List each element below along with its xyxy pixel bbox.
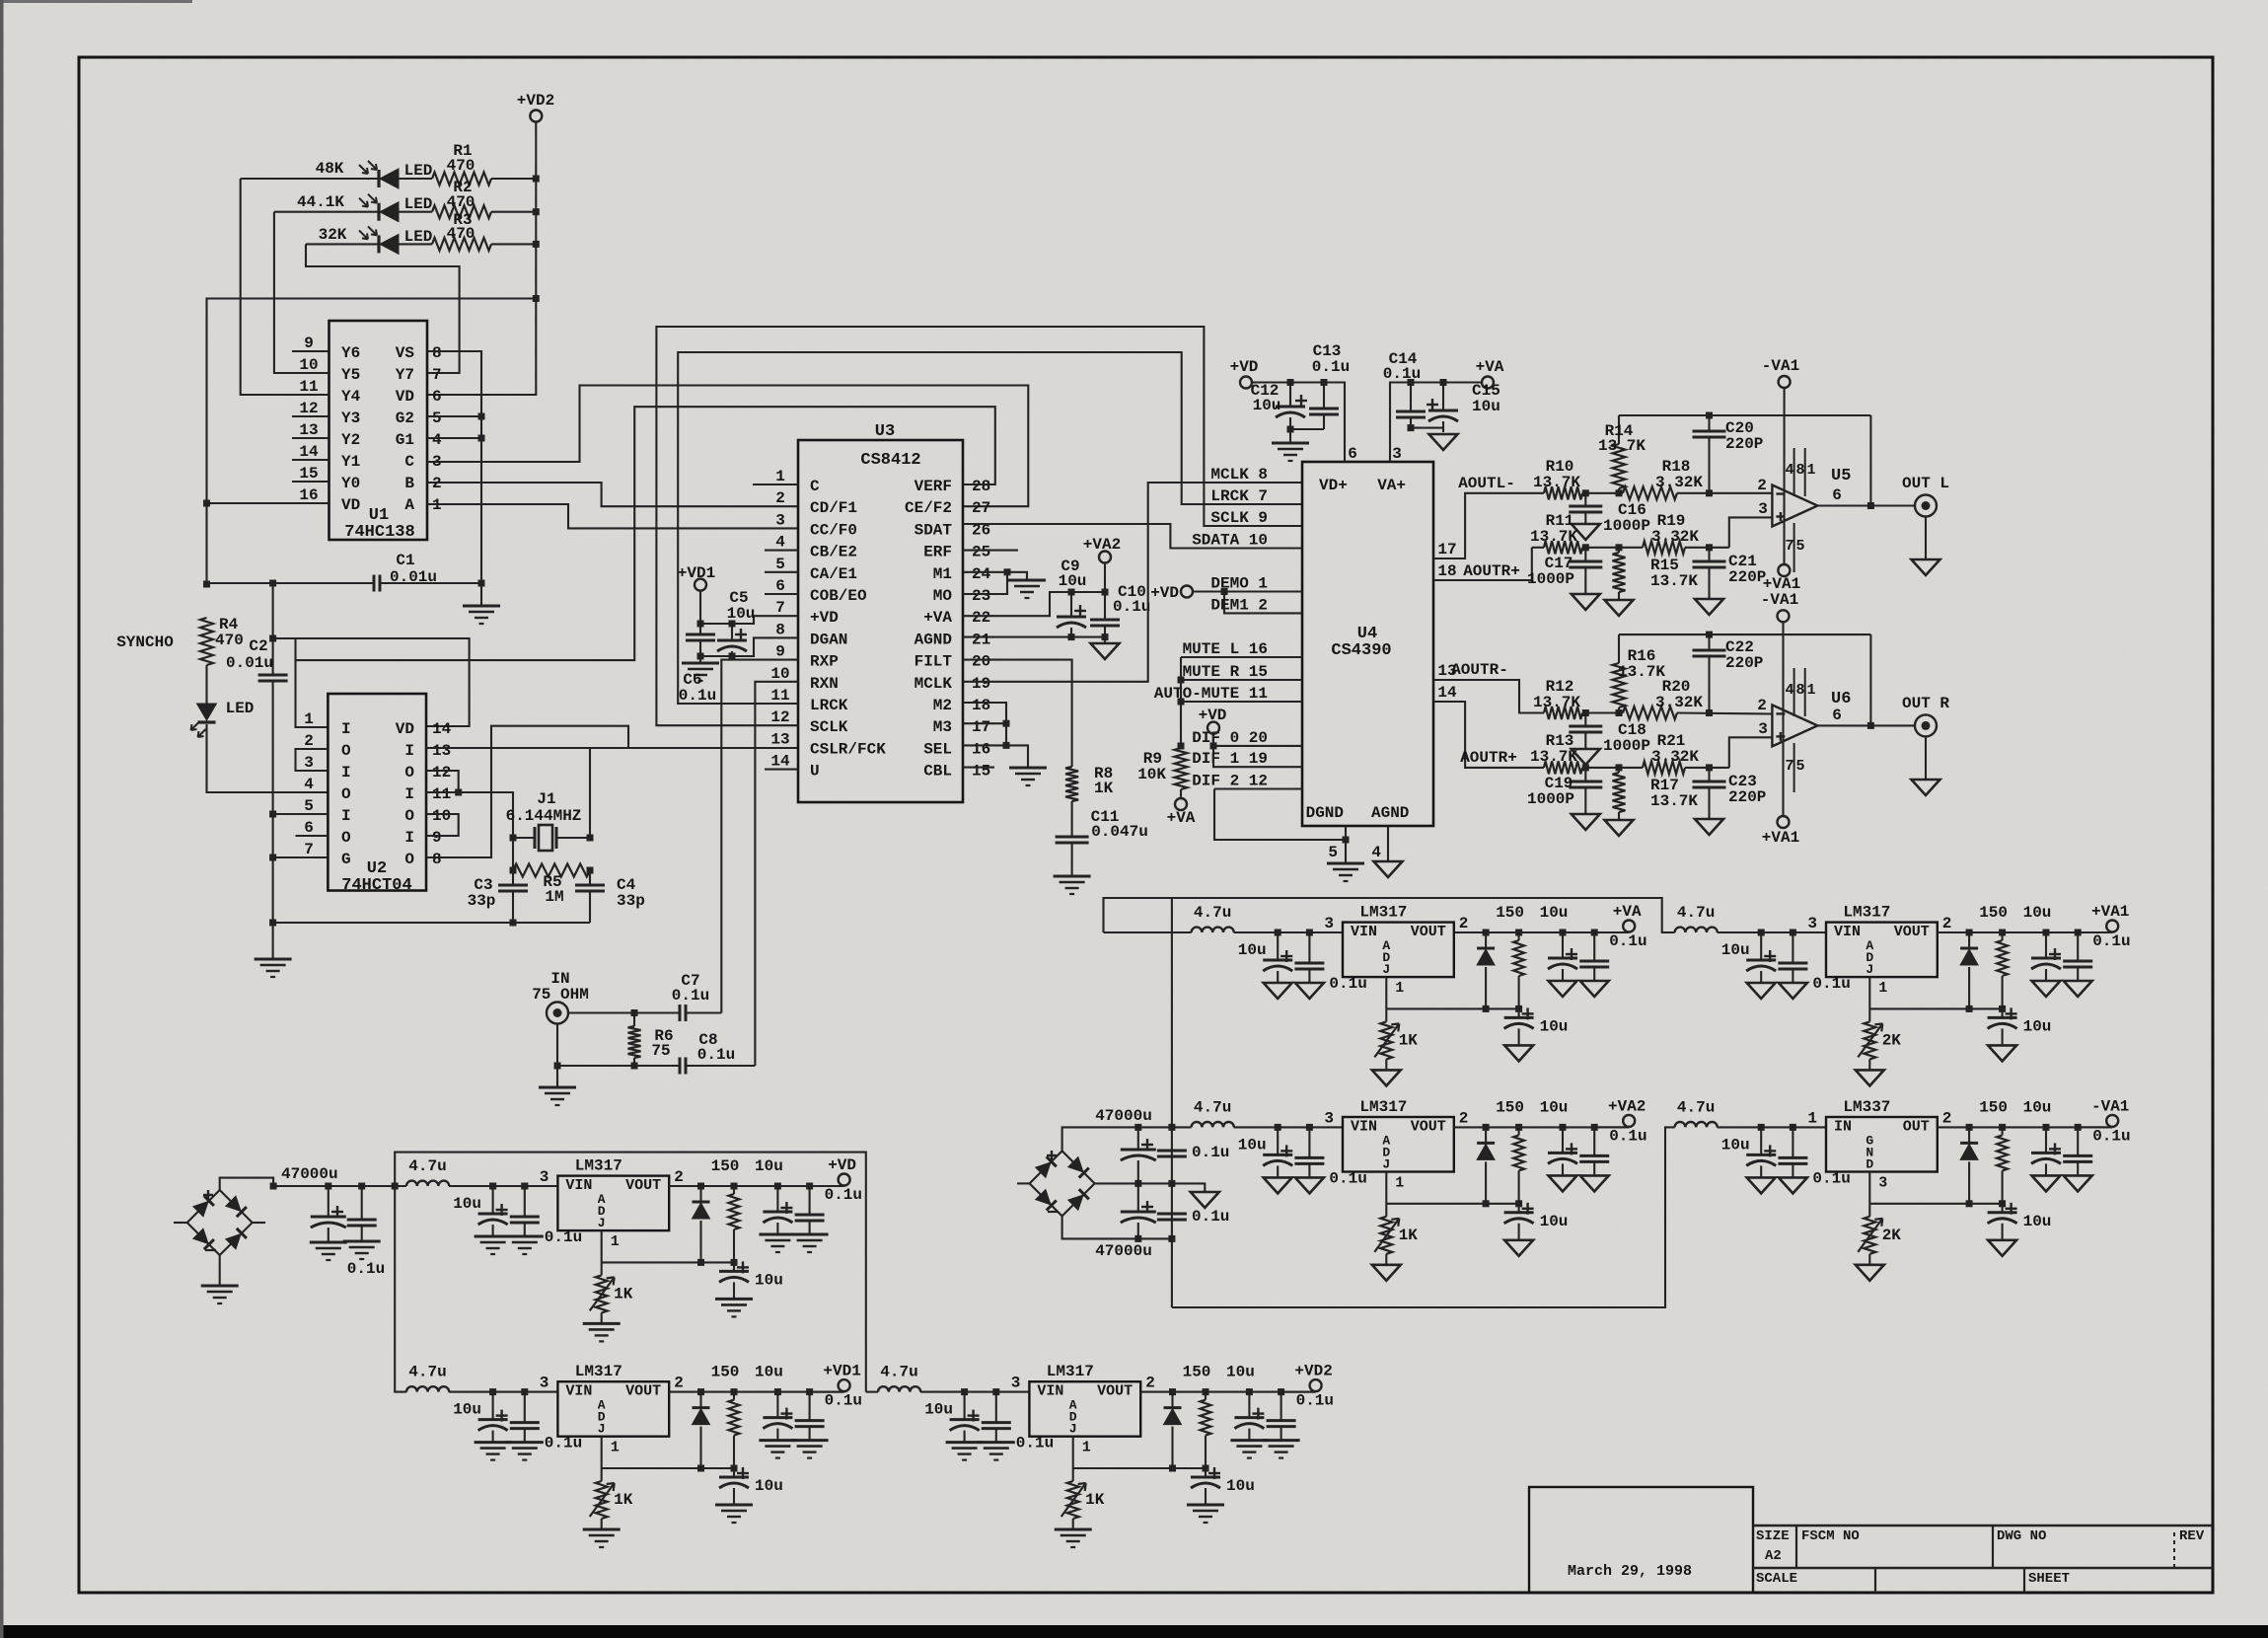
capacitor 0.1u output of +VD1 block	[809, 1392, 811, 1421]
resistor R6 75	[633, 1013, 635, 1027]
capacitor C5 10u	[731, 624, 733, 640]
power terminal +VD at DEMO	[1181, 586, 1193, 598]
capacitor 47000u left PSU	[328, 1186, 329, 1217]
power terminal -VA1 for U5	[1779, 376, 1791, 388]
svg-text:10: 10	[299, 356, 318, 374]
protection diode of -VA1 block	[1968, 1127, 1970, 1143]
svg-text:0.1u: 0.1u	[697, 1046, 735, 1064]
wire U3 RXN pin10 to C8	[755, 682, 798, 1066]
svg-text:I: I	[404, 829, 414, 847]
capacitor C19 1000P	[1584, 768, 1586, 782]
svg-text:10u: 10u	[755, 1271, 783, 1289]
svg-text:Y0: Y0	[341, 475, 360, 492]
resistor R11 13.7K	[1544, 541, 1582, 554]
resistor R16 13.7K	[1618, 634, 1620, 663]
svg-text:AOUTR-: AOUTR-	[1451, 661, 1508, 679]
U1 pin 14 Y1 stub	[292, 459, 329, 461]
capacitor 0.1u output of -VA1 block	[2077, 1127, 2079, 1155]
regulator LM317 of +VA block	[1343, 923, 1454, 978]
svg-text:B: B	[404, 475, 414, 492]
U5 output to OUT L	[1817, 504, 1915, 506]
svg-text:150: 150	[1183, 1364, 1211, 1381]
output rail of +VA2 block	[1454, 1126, 1629, 1128]
wire U3 MCLK pin19 to U4 MCLK pin8	[963, 483, 1302, 682]
wire +VA rail to U4 VA+ pin3	[1390, 383, 1482, 463]
capacitor C16 1000P	[1584, 493, 1586, 506]
power terminal +VD2 of +VD2 block	[1281, 1391, 1316, 1393]
ground below C15	[1429, 434, 1458, 450]
capacitor C12 10u	[1289, 383, 1291, 408]
capacitor 10u output of +VD block	[776, 1186, 778, 1212]
wire U1 VS/G2/G1 to ground	[427, 351, 481, 606]
svg-text:24: 24	[972, 565, 991, 583]
ground below input 10u of +VA block	[1264, 983, 1292, 999]
ADJ pin wire of +VD block	[601, 1230, 603, 1262]
svg-text:VIN: VIN	[1834, 924, 1861, 940]
svg-text:13.7K: 13.7K	[1533, 694, 1580, 711]
svg-text:DGND: DGND	[1306, 804, 1344, 822]
ground at U3 SEL	[1009, 767, 1047, 770]
wire 32K to U1 Y7	[306, 244, 460, 373]
svg-text:10u: 10u	[755, 1157, 783, 1175]
svg-text:150: 150	[1496, 904, 1524, 922]
power terminal +VA2	[1099, 552, 1111, 563]
svg-text:O: O	[404, 807, 414, 825]
svg-text:25: 25	[972, 544, 990, 561]
ground below output 10u of +VD1 block	[759, 1439, 796, 1442]
svg-text:-VA1: -VA1	[1761, 591, 1798, 609]
svg-text:17: 17	[972, 718, 990, 736]
U1 pin 11 Y4 stub	[292, 394, 329, 396]
svg-text:27: 27	[972, 499, 990, 517]
raw feed wire into +VA block	[1104, 931, 1192, 933]
wire input rail of +VA block	[1234, 931, 1343, 933]
svg-text:3: 3	[540, 1168, 549, 1186]
svg-text:4: 4	[304, 776, 314, 793]
svg-text:13.7K: 13.7K	[1530, 528, 1577, 546]
svg-text:VOUT: VOUT	[1894, 924, 1930, 940]
U3 M1/M0 pins to ground	[963, 572, 1027, 580]
ground below trimmer of +VA1 block	[1856, 1070, 1884, 1085]
svg-text:220P: 220P	[1725, 435, 1763, 453]
ground at BR2 midpoint	[1191, 1192, 1219, 1208]
svg-text:SDAT: SDAT	[915, 521, 953, 539]
capacitor 10u at ADJ of -VA1 block	[2002, 1204, 2004, 1213]
wire R4/LED to U2 pin4	[207, 724, 329, 792]
op-amp U5	[1772, 485, 1817, 527]
svg-text:470: 470	[447, 157, 476, 175]
svg-text:OUT: OUT	[1903, 1118, 1930, 1135]
output rail of +VA block	[1454, 931, 1629, 933]
svg-text:OUT L: OUT L	[1902, 475, 1949, 492]
ground below output 10u of +VA block	[1549, 981, 1577, 997]
svg-text:+VA1: +VA1	[1762, 829, 1799, 847]
ground below input 10u of +VA1 block	[1747, 983, 1776, 999]
svg-text:14: 14	[770, 753, 790, 771]
svg-text:CE/F2: CE/F2	[905, 499, 952, 517]
svg-text:OUT R: OUT R	[1902, 695, 1949, 712]
svg-text:VOUT: VOUT	[1411, 1118, 1446, 1135]
svg-text:1: 1	[1807, 1109, 1817, 1127]
inductor 4.7u of +VD block	[406, 1181, 449, 1186]
ground below U4 AGND	[1374, 861, 1403, 877]
capacitor 0.1u input of +VD1 block	[524, 1392, 526, 1423]
U3 M2/M3/SEL tie to ground	[963, 703, 1028, 768]
svg-text:5: 5	[1795, 758, 1804, 775]
power terminal +VA1 below U5	[1778, 564, 1790, 576]
svg-text:CBL: CBL	[923, 763, 952, 781]
wire cap bottoms to U3 DGAN pin8	[700, 637, 798, 656]
svg-text:LM317: LM317	[1843, 904, 1890, 922]
resistor R17 13.7K	[1618, 768, 1620, 773]
resistor R19 3.32K	[1643, 541, 1685, 554]
svg-text:16: 16	[299, 486, 318, 504]
ground below trimmer of +VD block	[583, 1322, 621, 1325]
power terminal +VA2 of +VA2 block	[1594, 1126, 1629, 1128]
svg-text:0.1u: 0.1u	[1609, 1127, 1646, 1145]
wire 44.1K to U1 Y5	[274, 212, 329, 373]
ground below output 0.1u of +VD2 block	[1263, 1439, 1300, 1442]
svg-text:3.32K: 3.32K	[1651, 528, 1699, 546]
output rail of +VD2 block	[1140, 1391, 1315, 1393]
resistor R14 13.7K	[1618, 415, 1620, 444]
svg-text:10u: 10u	[1226, 1364, 1255, 1381]
wire U3 FILT pin20 to R8	[963, 660, 1072, 767]
ADJ pin wire of +VA1 block	[1868, 977, 1870, 1008]
svg-text:470: 470	[447, 193, 476, 211]
ground below BR1	[201, 1285, 239, 1288]
capacitor C21 220P	[1708, 548, 1710, 561]
svg-text:SEL: SEL	[923, 740, 952, 758]
capacitor 10u output of +VA1 block	[2045, 932, 2047, 958]
svg-text:5: 5	[1328, 844, 1338, 861]
svg-text:13.7K: 13.7K	[1618, 663, 1665, 681]
U1 pin 16 VD stub	[292, 502, 329, 504]
wire BR1 plus output to raw node	[220, 1178, 273, 1190]
svg-text:VA+: VA+	[1377, 477, 1406, 494]
wire input rail of +VD2 block	[920, 1391, 1029, 1393]
svg-text:14: 14	[1437, 684, 1457, 702]
svg-text:10u: 10u	[2023, 1098, 2052, 1116]
svg-text:MO: MO	[933, 587, 953, 605]
svg-text:2: 2	[674, 1168, 684, 1186]
svg-text:VOUT: VOUT	[625, 1177, 661, 1194]
resistor R8 1K	[1065, 767, 1078, 801]
svg-text:0.01u: 0.01u	[390, 568, 437, 586]
ADJ pin wire of +VD2 block	[1072, 1437, 1074, 1468]
svg-text:3.32K: 3.32K	[1655, 694, 1703, 711]
svg-text:Y5: Y5	[341, 366, 360, 384]
svg-text:3: 3	[1324, 915, 1334, 932]
svg-text:LRCK: LRCK	[810, 697, 848, 714]
scanner dark sliver top-left edge	[0, 0, 192, 3]
svg-text:2: 2	[304, 732, 314, 750]
svg-text:0.1u: 0.1u	[825, 1392, 862, 1410]
regulator LM337 of -VA1 block	[1826, 1117, 1938, 1172]
wire BR2 minus raw- row	[1062, 1216, 1172, 1238]
wire input rail of +VD1 block	[449, 1391, 557, 1393]
svg-text:1: 1	[1395, 980, 1404, 997]
svg-text:3: 3	[1011, 1375, 1021, 1392]
ground below output 10u of +VA2 block	[1549, 1175, 1577, 1191]
svg-text:23: 23	[972, 587, 990, 605]
capacitor 0.1u input of +VD block	[524, 1186, 526, 1217]
resistor R9 10K	[1175, 748, 1188, 789]
ground below input 0.1u of +VA block	[1295, 983, 1324, 999]
svg-text:J: J	[1069, 1422, 1077, 1437]
title block date box	[1529, 1487, 1753, 1593]
U1 pin5 G2 stub	[427, 415, 481, 417]
wire crystal ground rail	[273, 922, 590, 924]
svg-text:74HC138: 74HC138	[344, 523, 414, 542]
ground below U1	[463, 605, 500, 608]
capacitor 10u at ADJ of +VA1 block	[2002, 1008, 2004, 1017]
svg-text:13.7K: 13.7K	[1650, 792, 1698, 810]
svg-text:7: 7	[775, 599, 785, 617]
capacitor 10u input of +VD1 block	[492, 1392, 494, 1420]
svg-text:4.7u: 4.7u	[880, 1364, 917, 1381]
svg-text:J: J	[598, 1422, 606, 1437]
bridge rectifier BR2	[1030, 1151, 1062, 1183]
svg-text:COB/EO: COB/EO	[810, 587, 867, 605]
ground below input 0.1u of +VD block	[506, 1235, 544, 1238]
wire MUTE L net	[1181, 656, 1302, 658]
svg-text:3: 3	[775, 511, 785, 529]
capacitor 10u output of +VD2 block	[1248, 1392, 1250, 1418]
svg-text:3: 3	[1807, 915, 1817, 932]
svg-text:13.7K: 13.7K	[1533, 474, 1580, 491]
svg-text:150: 150	[711, 1157, 740, 1175]
ground below input 10u of +VD block	[475, 1235, 512, 1238]
svg-text:0.1u: 0.1u	[672, 987, 709, 1005]
svg-text:J: J	[1866, 962, 1873, 977]
svg-text:VIN: VIN	[565, 1383, 592, 1400]
ground below IN	[556, 1066, 558, 1087]
ground below OUT L	[1925, 517, 1927, 560]
svg-text:RXP: RXP	[810, 653, 839, 671]
svg-text:Y1: Y1	[341, 453, 360, 471]
capacitor 10u input of +VD2 block	[964, 1392, 966, 1420]
svg-text:8: 8	[432, 851, 442, 868]
svg-text:D: D	[1866, 1156, 1873, 1171]
svg-text:1K: 1K	[1094, 780, 1114, 797]
wire AUTO-MUTE net	[1181, 701, 1302, 703]
capacitor 0.1u upper right PSU	[1157, 1150, 1187, 1153]
svg-text:3: 3	[1758, 500, 1768, 518]
capacitor C4 33p	[589, 870, 591, 885]
svg-text:17: 17	[1437, 541, 1456, 558]
svg-text:1: 1	[775, 468, 785, 485]
svg-text:CC/F0: CC/F0	[810, 521, 857, 539]
svg-text:3: 3	[1392, 445, 1402, 463]
LED D3 32K indicator	[377, 235, 380, 253]
connector OUT L	[1915, 495, 1937, 517]
capacitor C23 220P	[1708, 768, 1710, 782]
resistor R15 13.7K	[1618, 548, 1620, 553]
wire +VD to U4 DEMO pin1	[1193, 590, 1302, 592]
power terminal -VA1 of -VA1 block	[2078, 1126, 2112, 1128]
wire U2 pin13 CSLR/FCK line to U3 pin13	[426, 747, 798, 749]
U3 pin5 stub	[765, 571, 798, 573]
capacitor 10u input of -VA1 block	[1760, 1127, 1762, 1154]
capacitor 10u at ADJ of +VA2 block	[1518, 1204, 1520, 1213]
wire U3 +VA pin22 to C9/C10	[963, 592, 1105, 616]
svg-text:10u: 10u	[1472, 398, 1500, 415]
U6 power pins no-connect ticks	[1793, 668, 1795, 716]
ADJ pin wire of -VA1 block	[1868, 1172, 1870, 1204]
wire U1 B to U3 CD/F1	[427, 483, 798, 506]
ground below output 0.1u of +VA1 block	[2064, 981, 2092, 997]
LED D4 sync indicator	[205, 665, 207, 704]
capacitor C1 0.01u	[207, 582, 375, 584]
svg-text:10u: 10u	[727, 605, 756, 623]
LED D2 44.1K indicator	[377, 203, 380, 221]
svg-text:+VD1: +VD1	[678, 564, 715, 582]
svg-text:18: 18	[972, 697, 990, 714]
capacitor 0.1u input of +VA block	[1308, 932, 1310, 963]
svg-text:1K: 1K	[614, 1285, 633, 1303]
svg-text:150: 150	[711, 1364, 740, 1381]
U2 pin12-pin11 loop	[426, 771, 459, 792]
resistor R10 13.7K	[1544, 486, 1582, 499]
U2 pin2-pin3 loop	[296, 749, 329, 771]
svg-text:+VD: +VD	[1199, 707, 1227, 724]
svg-text:5: 5	[304, 797, 314, 815]
svg-text:+VA2: +VA2	[1083, 536, 1121, 554]
svg-text:+VD2: +VD2	[517, 92, 554, 110]
power terminal +VA1 of +VA1 block	[2078, 931, 2112, 933]
wire to U2 pin1	[296, 638, 329, 727]
svg-text:LED: LED	[404, 162, 433, 180]
svg-text:SHEET: SHEET	[2028, 1571, 2070, 1587]
svg-text:20: 20	[972, 653, 990, 671]
U1 pin4 G1 stub	[427, 437, 481, 439]
raw distribution box left PSU	[395, 1153, 866, 1392]
svg-text:LM317: LM317	[1359, 904, 1407, 922]
ADJ pin wire of +VA block	[1385, 977, 1387, 1008]
ground below C5/C6	[699, 656, 701, 663]
wire mute tie rail	[1180, 657, 1182, 748]
svg-text:6: 6	[1832, 486, 1842, 504]
svg-text:LM317: LM317	[575, 1157, 622, 1175]
power terminal +VA1 below U6	[1778, 816, 1790, 828]
power terminal +VA for U4	[1482, 377, 1494, 389]
svg-text:J: J	[1382, 962, 1390, 977]
svg-text:LED: LED	[404, 228, 433, 246]
ground below input 10u of +VD2 block	[946, 1441, 984, 1444]
svg-text:10u: 10u	[1226, 1477, 1255, 1495]
regulator LM317 of +VD2 block	[1029, 1381, 1140, 1437]
ADJ pin wire of +VA2 block	[1385, 1172, 1387, 1204]
svg-text:REV: REV	[2179, 1528, 2205, 1544]
protection diode of +VD2 block	[1171, 1392, 1173, 1408]
wire DIF1 loop	[1213, 746, 1302, 767]
IC U2 74HCT04	[328, 694, 426, 891]
svg-text:1M: 1M	[545, 888, 563, 906]
svg-text:1K: 1K	[1399, 1031, 1419, 1049]
wire U3 AGND pin21 to cap bottoms	[963, 636, 1105, 638]
capacitor 10u at ADJ of +VD2 block	[1205, 1468, 1207, 1477]
svg-text:C2: C2	[249, 637, 267, 655]
ground below trimmer of +VA2 block	[1372, 1265, 1401, 1281]
svg-text:LED: LED	[404, 195, 433, 213]
svg-text:0.1u: 0.1u	[679, 687, 716, 705]
svg-text:+VD: +VD	[1230, 358, 1259, 376]
svg-text:44.1K: 44.1K	[297, 193, 344, 211]
svg-text:LM337: LM337	[1843, 1098, 1890, 1116]
ADJ row wire of +VD1 block	[602, 1467, 734, 1469]
svg-text:3: 3	[304, 754, 314, 772]
capacitor 0.1u lower right PSU	[1157, 1213, 1187, 1216]
wire U3 LRCK pin11 to U4 LRCK pin7	[678, 352, 1302, 704]
svg-text:Y6: Y6	[341, 344, 360, 362]
capacitor C9 10u	[1070, 592, 1072, 617]
bridge rectifier BR1	[187, 1190, 220, 1223]
svg-text:7: 7	[432, 366, 442, 384]
ground below input 0.1u of +VD2 block	[978, 1441, 1015, 1444]
ground at U3 M1/M0	[1008, 579, 1046, 582]
wire crystal right to CSLR line	[589, 748, 591, 838]
svg-text:2: 2	[775, 489, 785, 507]
svg-text:3: 3	[1324, 1109, 1334, 1127]
svg-text:0.1u: 0.1u	[1383, 365, 1421, 383]
svg-text:VD: VD	[341, 496, 360, 514]
U6 output to OUT R	[1817, 724, 1915, 726]
wire 32K net	[306, 243, 379, 245]
svg-text:1: 1	[1806, 462, 1815, 479]
svg-text:8: 8	[432, 344, 442, 362]
svg-text:VOUT: VOUT	[1411, 924, 1446, 940]
svg-text:C: C	[404, 453, 414, 471]
svg-text:21: 21	[972, 631, 990, 648]
svg-text:MCLK 8: MCLK 8	[1210, 466, 1268, 484]
svg-text:+VD: +VD	[828, 1156, 856, 1174]
svg-text:47000u: 47000u	[1095, 1107, 1152, 1125]
svg-text:AOUTR+: AOUTR+	[1463, 562, 1520, 580]
svg-text:8: 8	[1795, 462, 1804, 479]
ground below C12	[1289, 429, 1291, 443]
svg-text:CS4390: CS4390	[1331, 641, 1391, 660]
svg-text:7: 7	[304, 841, 314, 858]
regulator LM317 of +VA2 block	[1343, 1117, 1454, 1172]
svg-text:AUTO-MUTE 11: AUTO-MUTE 11	[1154, 685, 1268, 703]
inductor 4.7u of -VA1 block	[1675, 1122, 1718, 1127]
svg-text:15: 15	[299, 465, 318, 483]
U3 pin4 stub	[765, 550, 798, 552]
svg-text:1: 1	[1806, 682, 1815, 699]
title block column dividers	[1795, 1526, 1797, 1568]
connector OUT R	[1915, 714, 1937, 736]
resistor R4 470	[200, 618, 213, 665]
svg-text:LRCK 7: LRCK 7	[1210, 487, 1268, 505]
capacitor C2 0.01u	[272, 583, 274, 675]
capacitor 10u output of +VA block	[1562, 932, 1564, 958]
svg-text:5: 5	[432, 409, 442, 427]
svg-text:M2: M2	[933, 697, 952, 714]
svg-text:0.1u: 0.1u	[1296, 1392, 1334, 1410]
wire +VD2 to U1 VD pin16	[207, 299, 537, 585]
svg-text:U3: U3	[875, 422, 895, 441]
U3 ERF pin25 stub	[963, 550, 1018, 552]
svg-text:VIN: VIN	[1351, 924, 1377, 940]
power terminal +VD1	[695, 579, 706, 591]
capacitor 10u at ADJ of +VA block	[1518, 1008, 1520, 1017]
wire U3 VERF pin28 to U2 pin1	[296, 407, 995, 660]
svg-text:LM317: LM317	[1047, 1363, 1094, 1380]
svg-text:0.1u: 0.1u	[1113, 598, 1150, 616]
ground below input 0.1u of +VD1 block	[506, 1441, 544, 1444]
svg-text:13.7K: 13.7K	[1598, 437, 1646, 455]
